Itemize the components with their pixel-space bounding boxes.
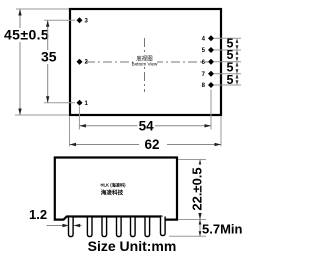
- pin 7 marker: [202, 71, 214, 78]
- svg-text:Bottom View: Bottom View: [132, 62, 158, 67]
- pin lead 7 side view: [161, 217, 166, 236]
- dimension 45±0.5: [3, 9, 69, 115]
- module outline bottom view: [70, 9, 221, 115]
- svg-text:海凌科技: 海凌科技: [101, 189, 124, 197]
- dimension 5 pin pitch 7-8: [227, 73, 239, 87]
- svg-text:HLK (海凌科): HLK (海凌科): [100, 182, 126, 189]
- side view logo text: [100, 182, 126, 197]
- vertical center line: [144, 38, 146, 92]
- pin 2 marker: [77, 59, 89, 66]
- label Bottom View: [132, 55, 158, 67]
- pin 5 marker: [202, 47, 214, 54]
- pin 3 marker: [77, 17, 89, 24]
- svg-text:62: 62: [144, 137, 159, 152]
- pin lead 1 side view: [69, 218, 74, 237]
- horizontal center line: [86, 61, 208, 63]
- dimension 5 pin pitch 4-5: [227, 36, 239, 50]
- dimension 5.7Min pin length: [169, 220, 243, 237]
- dimension 5 pin pitch 6-7: [227, 60, 239, 74]
- svg-text:1.2: 1.2: [29, 207, 47, 222]
- pin lead 3 side view: [102, 218, 107, 237]
- dimension 1.2 pin width: [29, 207, 82, 227]
- dimension 54: [79, 90, 211, 134]
- pin 8 marker: [202, 82, 214, 89]
- svg-text:5: 5: [227, 73, 234, 87]
- svg-text:5.7Min: 5.7Min: [202, 222, 243, 237]
- pin lead 6 side view: [145, 218, 150, 237]
- pin 4 marker: [202, 35, 214, 42]
- dimension 62: [70, 117, 222, 152]
- caption Size Unit:mm: [88, 238, 177, 254]
- pin lead 2 side view: [87, 218, 92, 237]
- pin lead 5 side view: [131, 218, 136, 237]
- svg-text:54: 54: [139, 119, 155, 134]
- svg-text:Size Unit:mm: Size Unit:mm: [88, 238, 177, 254]
- pin pitch extension lines right: [214, 38, 241, 85]
- svg-text:22.±0.5: 22.±0.5: [190, 167, 205, 210]
- svg-text:35: 35: [41, 49, 57, 65]
- svg-text:45±0.5: 45±0.5: [4, 27, 49, 43]
- module outline side view: [55, 158, 177, 220]
- dimension 5 pin pitch 5-6: [227, 48, 239, 62]
- dimension 35: [40, 20, 75, 103]
- dimension 22±0.5: [178, 160, 206, 220]
- pin lead 4 side view: [117, 218, 122, 237]
- pin 6 marker: [202, 59, 214, 66]
- pin 1 marker: [77, 100, 89, 107]
